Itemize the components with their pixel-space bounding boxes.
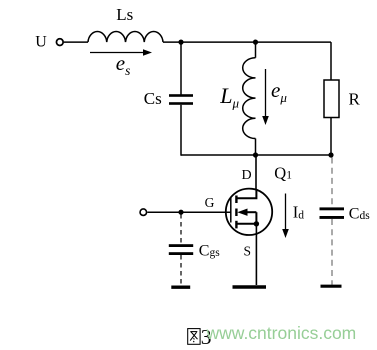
inductor Ls	[88, 32, 163, 43]
channel segment body Q1	[235, 209, 237, 217]
wire drain	[255, 155, 257, 190]
svg-text:es: es	[116, 51, 131, 78]
body to source link Q1	[255, 212, 257, 224]
wire Cds dashed upper	[331, 158, 333, 207]
node junction top-left	[178, 40, 183, 45]
source contact Q1	[236, 223, 256, 225]
svg-text:Cds: Cds	[349, 205, 370, 222]
ground Cgs	[171, 286, 190, 289]
drain contact Q1	[236, 189, 256, 198]
wire left branch upper	[180, 42, 182, 94]
wire left branch lower	[180, 105, 182, 156]
node junction bottom-right	[328, 152, 333, 157]
channel segment source Q1	[235, 221, 237, 229]
wire right branch upper	[330, 42, 332, 80]
svg-text:S: S	[244, 243, 252, 258]
wire right branch lower	[330, 118, 332, 156]
capacitor Cgs	[169, 244, 193, 247]
gate electrode Q1	[230, 197, 232, 222]
svg-text:Cs: Cs	[144, 89, 162, 108]
svg-text:Q1: Q1	[274, 164, 292, 183]
arrow e_s	[90, 52, 146, 54]
arrow e_mu	[265, 69, 267, 119]
wire Cgs dashed lower	[180, 255, 182, 285]
capacitor Cds	[320, 207, 345, 210]
wire source	[255, 224, 257, 285]
node junction bottom-middle	[253, 152, 258, 157]
svg-text:Id: Id	[293, 203, 305, 222]
wire Lmu bottom stub	[255, 139, 257, 156]
wire U to Ls	[64, 41, 88, 43]
inductor Lmu	[243, 58, 256, 139]
wire bottom rail	[181, 154, 331, 156]
wire Cds dashed lower	[331, 219, 333, 285]
svg-text:U: U	[35, 34, 47, 51]
node junction top-middle	[253, 40, 258, 45]
ground source	[233, 285, 267, 289]
svg-text:Ls: Ls	[116, 5, 133, 24]
terminal U	[56, 39, 63, 46]
svg-text:D: D	[242, 168, 252, 183]
wire gate	[147, 211, 230, 213]
svg-text:R: R	[349, 89, 361, 108]
ground Cds	[321, 285, 342, 288]
arrow Id	[285, 194, 287, 232]
svg-text:G: G	[205, 195, 215, 210]
node junction gate	[178, 210, 183, 215]
svg-text:Cgs: Cgs	[199, 242, 220, 259]
terminal gate	[140, 209, 147, 216]
svg-text:eμ: eμ	[271, 78, 287, 105]
wire Lmu top stub	[255, 42, 257, 58]
body arrow Q1	[237, 209, 247, 216]
caption figure 3 glyph tu	[188, 329, 200, 345]
transistor Q1	[226, 189, 272, 235]
svg-text:Lμ: Lμ	[219, 83, 239, 111]
resistor R	[324, 80, 339, 118]
channel segment drain Q1	[235, 196, 237, 204]
node source dot Q1	[254, 221, 259, 226]
capacitor Cs	[169, 94, 193, 97]
wire top rail	[163, 41, 331, 43]
wire Cgs dashed upper	[180, 214, 182, 244]
svg-text:www.cntronics.com: www.cntronics.com	[206, 323, 357, 343]
